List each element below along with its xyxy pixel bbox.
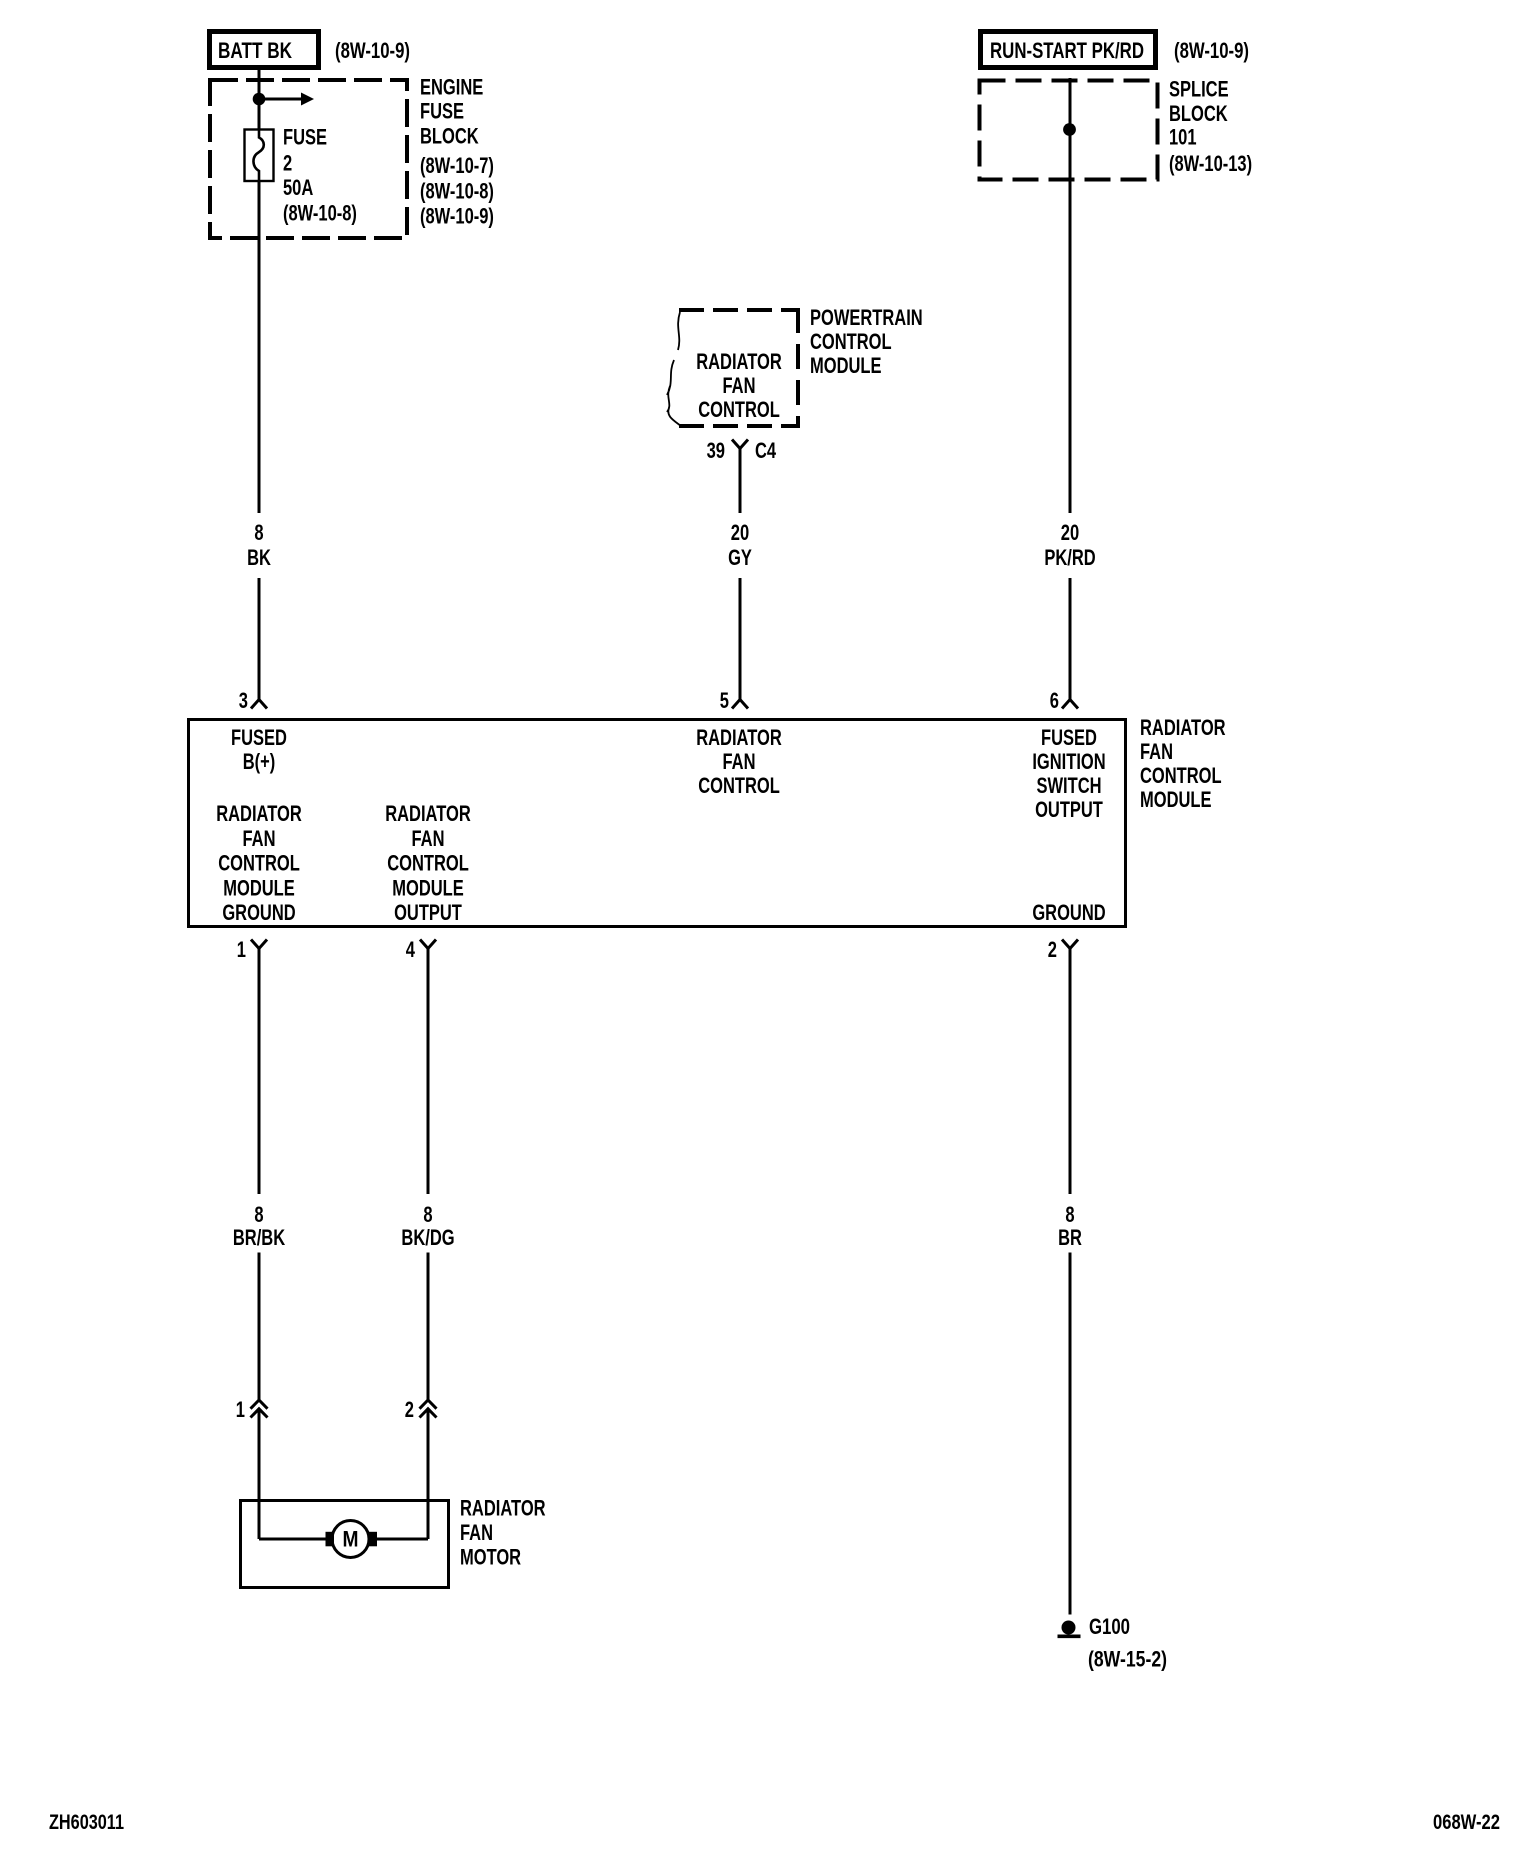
svg-text:MODULE: MODULE bbox=[810, 353, 882, 378]
svg-text:(8W-10-9): (8W-10-9) bbox=[1174, 38, 1249, 63]
pin 1 connector at module bbox=[251, 940, 267, 949]
pin 6 connector at module bbox=[1062, 700, 1078, 709]
svg-text:(8W-10-9): (8W-10-9) bbox=[335, 38, 410, 63]
svg-text:BATT BK: BATT BK bbox=[218, 38, 292, 63]
wire BATT BK to fuse bbox=[258, 68, 261, 129]
svg-text:(8W-10-7): (8W-10-7) bbox=[420, 153, 494, 178]
svg-text:ZH603011: ZH603011 bbox=[49, 1811, 124, 1834]
svg-text:8: 8 bbox=[254, 520, 263, 545]
svg-text:CONTROL: CONTROL bbox=[698, 397, 780, 422]
wire pin2 to label 8 BR bbox=[1069, 949, 1072, 1195]
svg-text:2: 2 bbox=[283, 151, 292, 176]
svg-text:(8W-10-8): (8W-10-8) bbox=[283, 201, 357, 226]
svg-text:RUN-START PK/RD: RUN-START PK/RD bbox=[990, 38, 1144, 63]
svg-text:RADIATOR: RADIATOR bbox=[696, 349, 782, 374]
svg-text:RADIATOR: RADIATOR bbox=[1140, 715, 1226, 740]
svg-text:3: 3 bbox=[239, 688, 248, 713]
svg-text:GROUND: GROUND bbox=[1032, 900, 1105, 925]
svg-text:8: 8 bbox=[1065, 1202, 1074, 1227]
junction dot splice in fuse block bbox=[253, 93, 266, 106]
svg-text:FUSED: FUSED bbox=[231, 725, 287, 750]
svg-text:068W-22: 068W-22 bbox=[1433, 1811, 1500, 1834]
svg-text:RADIATOR: RADIATOR bbox=[385, 801, 471, 826]
power tag RUN-START PK/RD box bbox=[981, 32, 1156, 68]
pin 39 connector C4 at PCM bbox=[732, 440, 748, 449]
wire 20 GY to module pin 5 bbox=[739, 578, 742, 701]
wire 8 BK to module pin 3 bbox=[258, 578, 261, 701]
svg-text:CONTROL: CONTROL bbox=[810, 329, 892, 354]
wire 8 BK/DG to inline connector 2 bbox=[427, 1253, 430, 1401]
pin 3 connector at module bbox=[251, 700, 267, 709]
wire through splice block bbox=[1069, 78, 1072, 513]
svg-text:OUTPUT: OUTPUT bbox=[1035, 797, 1103, 822]
radiator fan motor box bbox=[241, 1501, 449, 1588]
power tag BATT BK box bbox=[210, 32, 319, 68]
pin 5 connector at module bbox=[732, 700, 748, 709]
svg-text:(8W-10-8): (8W-10-8) bbox=[420, 179, 494, 204]
svg-text:C4: C4 bbox=[755, 438, 777, 463]
svg-text:FUSE: FUSE bbox=[283, 125, 327, 150]
svg-text:4: 4 bbox=[406, 937, 416, 962]
arrow feed to other circuits bbox=[259, 98, 301, 101]
svg-text:BR/BK: BR/BK bbox=[233, 1225, 285, 1250]
svg-text:FUSED: FUSED bbox=[1041, 725, 1097, 750]
svg-text:5: 5 bbox=[720, 688, 729, 713]
svg-text:8: 8 bbox=[254, 1202, 263, 1227]
wire fuse to label 8 BK bbox=[258, 182, 261, 513]
svg-text:SWITCH: SWITCH bbox=[1036, 773, 1101, 798]
motor M symbol bbox=[332, 1521, 369, 1558]
svg-text:BK: BK bbox=[247, 545, 271, 570]
svg-text:FAN: FAN bbox=[723, 373, 756, 398]
svg-text:CONTROL: CONTROL bbox=[387, 851, 469, 876]
engine fuse block dashed box bbox=[210, 80, 407, 238]
radiator fan control module box bbox=[189, 720, 1126, 927]
wire pin4 to label 8 BK/DG bbox=[427, 949, 430, 1195]
wire 8 BR/BK to inline connector 1 bbox=[258, 1253, 261, 1401]
svg-text:39: 39 bbox=[707, 438, 725, 463]
svg-text:CONTROL: CONTROL bbox=[698, 773, 780, 798]
svg-text:1: 1 bbox=[236, 1397, 245, 1422]
svg-text:RADIATOR: RADIATOR bbox=[696, 725, 782, 750]
svg-text:20: 20 bbox=[731, 520, 749, 545]
inline connector 1 bbox=[251, 1400, 268, 1409]
svg-text:GROUND: GROUND bbox=[222, 900, 295, 925]
svg-text:BLOCK: BLOCK bbox=[420, 124, 479, 149]
junction dot splice 101 bbox=[1063, 123, 1076, 136]
powertrain control module dashed box (partial) bbox=[679, 308, 800, 312]
ground G100 symbol bbox=[1062, 1621, 1076, 1635]
svg-text:RADIATOR: RADIATOR bbox=[460, 1496, 546, 1521]
pin 4 connector at module bbox=[420, 940, 436, 949]
svg-text:BK/DG: BK/DG bbox=[401, 1225, 454, 1250]
svg-text:2: 2 bbox=[1048, 937, 1057, 962]
svg-text:OUTPUT: OUTPUT bbox=[394, 900, 462, 925]
svg-text:(8W-10-13): (8W-10-13) bbox=[1169, 151, 1252, 176]
svg-text:MODULE: MODULE bbox=[1140, 787, 1212, 812]
svg-text:FAN: FAN bbox=[460, 1520, 493, 1545]
svg-text:B(+): B(+) bbox=[243, 749, 276, 774]
svg-text:FAN: FAN bbox=[723, 749, 756, 774]
splice block 101 dashed box bbox=[980, 81, 1158, 180]
svg-text:20: 20 bbox=[1061, 520, 1079, 545]
svg-text:FUSE: FUSE bbox=[420, 99, 464, 124]
svg-text:MODULE: MODULE bbox=[392, 875, 464, 900]
svg-text:SPLICE: SPLICE bbox=[1169, 77, 1229, 102]
svg-text:8: 8 bbox=[423, 1202, 432, 1227]
inline connector 2 bbox=[420, 1400, 437, 1409]
svg-text:CONTROL: CONTROL bbox=[1140, 763, 1222, 788]
svg-text:CONTROL: CONTROL bbox=[218, 851, 300, 876]
wire to motor left terminal bbox=[259, 1538, 327, 1541]
svg-text:101: 101 bbox=[1169, 125, 1197, 150]
wire connector 2 to motor bbox=[427, 1411, 430, 1539]
svg-text:PK/RD: PK/RD bbox=[1044, 545, 1095, 570]
svg-text:IGNITION: IGNITION bbox=[1032, 749, 1105, 774]
svg-text:2: 2 bbox=[405, 1397, 414, 1422]
svg-text:ENGINE: ENGINE bbox=[420, 75, 483, 100]
svg-text:1: 1 bbox=[237, 937, 246, 962]
svg-text:FAN: FAN bbox=[1140, 739, 1173, 764]
svg-text:G100: G100 bbox=[1089, 1614, 1130, 1639]
PCM torn left edge bbox=[667, 312, 681, 426]
fuse F2 50A symbol bbox=[245, 130, 274, 182]
svg-text:BLOCK: BLOCK bbox=[1169, 101, 1228, 126]
svg-text:POWERTRAIN: POWERTRAIN bbox=[810, 305, 923, 330]
pin 2 connector at module bbox=[1062, 940, 1078, 949]
svg-text:FAN: FAN bbox=[412, 826, 445, 851]
wire 20 PK/RD to module pin 6 bbox=[1069, 578, 1072, 701]
wire PCM to label 20 GY bbox=[739, 449, 742, 514]
svg-text:GY: GY bbox=[728, 545, 752, 570]
wire pin1 to label 8 BR/BK bbox=[258, 949, 261, 1195]
wire to motor right terminal bbox=[375, 1538, 428, 1541]
svg-text:(8W-10-9): (8W-10-9) bbox=[420, 204, 494, 229]
svg-text:(8W-15-2): (8W-15-2) bbox=[1088, 1647, 1167, 1672]
svg-text:MOTOR: MOTOR bbox=[460, 1545, 521, 1570]
svg-text:6: 6 bbox=[1050, 688, 1059, 713]
wire 8 BR to ground G100 bbox=[1069, 1253, 1072, 1615]
wire connector 1 to motor bbox=[258, 1411, 261, 1539]
svg-text:FAN: FAN bbox=[243, 826, 276, 851]
svg-text:MODULE: MODULE bbox=[223, 875, 295, 900]
svg-text:50A: 50A bbox=[283, 175, 313, 200]
svg-text:RADIATOR: RADIATOR bbox=[216, 801, 302, 826]
svg-text:BR: BR bbox=[1058, 1225, 1082, 1250]
svg-text:M: M bbox=[343, 1527, 359, 1552]
